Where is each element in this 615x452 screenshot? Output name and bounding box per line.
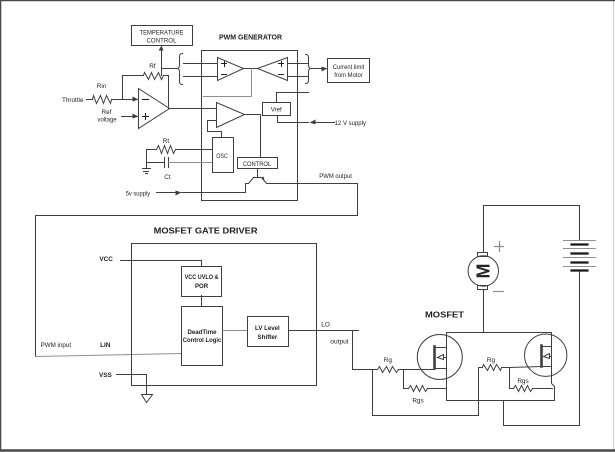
svg-text:Rgs: Rgs xyxy=(412,397,423,404)
wire left drain up xyxy=(446,333,448,348)
svg-text:LO: LO xyxy=(321,321,330,328)
wire right drain up xyxy=(551,333,553,347)
current limit from motor box xyxy=(328,59,370,83)
DeadTime Control Logic box xyxy=(182,307,223,366)
comparator A (left triangle) xyxy=(218,58,244,81)
resistor Rg right xyxy=(483,357,502,371)
svg-text:LIN: LIN xyxy=(100,342,111,349)
svg-text:12 V supply: 12 V supply xyxy=(335,120,367,127)
Ref voltage label xyxy=(98,109,117,124)
svg-text:VCC UVLO &: VCC UVLO & xyxy=(185,274,220,281)
wire gate run left xyxy=(353,369,378,371)
wire feedback left vertical xyxy=(123,76,144,100)
wire OSC to comparator C lower input xyxy=(208,121,222,138)
wire Vref bottom stub xyxy=(278,116,309,123)
svg-text:M: M xyxy=(473,264,493,279)
12 V supply arrow xyxy=(310,120,367,127)
motor M xyxy=(468,253,498,290)
svg-text:LV Level: LV Level xyxy=(255,325,280,332)
wire PWM output to gate driver input xyxy=(36,184,358,357)
wires brace to comparator A inputs xyxy=(184,64,218,77)
wire DeadTime to LV shifter xyxy=(223,330,248,332)
svg-text:5v supply: 5v supply xyxy=(126,191,151,198)
wire motor branch up xyxy=(483,290,485,333)
wire comparator C output to CONTROL xyxy=(245,115,261,158)
wire Rin to op-amp inverting input with arrow xyxy=(112,97,139,102)
brace left xyxy=(177,54,183,85)
svg-text:MOSFET GATE DRIVER: MOSFET GATE DRIVER xyxy=(154,225,258,235)
wire detour to right gate xyxy=(373,368,479,416)
wire between comparator apexes xyxy=(244,68,258,70)
svg-text:CONTROL: CONTROL xyxy=(243,161,272,168)
brace right xyxy=(306,55,312,84)
wire battery return xyxy=(504,272,580,426)
5v supply arrow xyxy=(126,191,246,198)
svg-text:Rg: Rg xyxy=(384,357,393,364)
svg-text:TEMPERATURE: TEMPERATURE xyxy=(140,30,184,37)
wire gate run right xyxy=(479,367,483,369)
svg-text:Throttle: Throttle xyxy=(62,97,84,104)
svg-text:Rf: Rf xyxy=(149,63,156,70)
wires comparator B to right brace xyxy=(288,64,308,77)
svg-text:Shifter: Shifter xyxy=(257,334,278,341)
wire left source down xyxy=(446,369,448,401)
wire op-amp output to comparator C xyxy=(170,108,217,110)
svg-text:Rgs: Rgs xyxy=(517,378,528,385)
wire brace to current limit with arrow xyxy=(312,67,328,72)
resistor Rg left xyxy=(378,357,399,373)
svg-text:POR: POR xyxy=(195,283,209,290)
svg-text:OSC: OSC xyxy=(216,153,228,160)
wire CONTROL to transistor base xyxy=(257,169,259,178)
wire Rg to right gate xyxy=(502,367,541,368)
svg-text:voltage: voltage xyxy=(98,117,117,124)
wire Vref top stub xyxy=(277,93,309,103)
gate driver box xyxy=(132,244,317,386)
wire right source down xyxy=(552,367,555,401)
svg-text:Ref: Ref xyxy=(102,109,112,116)
comparator C triangle xyxy=(217,103,245,128)
wire VSS to ground arrow xyxy=(117,375,147,395)
wire motor top xyxy=(483,206,485,253)
svg-text:Rg: Rg xyxy=(487,357,496,364)
PWM generator box xyxy=(202,51,298,201)
VCC UVLO and POR box xyxy=(182,267,222,297)
wire VCC to UVLO xyxy=(121,261,202,267)
svg-text:PWM output: PWM output xyxy=(319,173,352,180)
wire Rgs to right source xyxy=(533,388,553,390)
svg-text:DeadTime: DeadTime xyxy=(188,329,218,336)
op-amp U1 xyxy=(139,89,170,129)
wire Rg to gate xyxy=(399,369,434,371)
svg-text:Current limit: Current limit xyxy=(333,64,365,71)
svg-text:Rin: Rin xyxy=(97,83,107,90)
svg-text:MOSFET: MOSFET xyxy=(425,310,465,320)
capacitor Ct xyxy=(147,158,213,182)
resistor Rin xyxy=(87,83,112,104)
wire Rgs to source xyxy=(428,388,447,390)
resistor Rt xyxy=(147,138,213,154)
wire tap to Rgs left xyxy=(404,370,409,389)
svg-text:PWM input: PWM input xyxy=(41,342,72,349)
wire comparator midpoint down and left xyxy=(204,69,252,97)
svg-text:output: output xyxy=(330,338,349,345)
comparator B (right triangle) xyxy=(258,58,288,81)
svg-text:Rt: Rt xyxy=(163,138,170,145)
wire top bus to battery xyxy=(484,206,580,241)
wire Ref voltage to op-amp non-inverting input with arrow xyxy=(122,114,139,119)
wire source bus bottom xyxy=(447,400,555,402)
wire to temperature control with arrow xyxy=(159,46,164,76)
OSC box xyxy=(213,138,234,173)
wire PWM input sloped xyxy=(36,354,182,357)
svg-text:VCC: VCC xyxy=(99,256,113,263)
wire drain bus xyxy=(447,332,552,334)
svg-text:from Motor: from Motor xyxy=(334,72,363,79)
temperature control box xyxy=(132,26,193,46)
svg-text:CONTROL: CONTROL xyxy=(147,38,177,45)
MOSFET Q3 (right) xyxy=(525,334,567,376)
CONTROL box xyxy=(238,158,278,169)
wire tap to Rgs right xyxy=(510,368,514,389)
resistor Rgs right xyxy=(514,378,533,392)
LV Level Shifter box xyxy=(248,317,289,347)
plus terminal label xyxy=(495,242,504,252)
Vref box xyxy=(263,103,291,116)
battery B1 xyxy=(564,241,596,271)
svg-text:Vref: Vref xyxy=(271,106,282,113)
minus terminal label xyxy=(494,291,504,293)
ground arrow hollow xyxy=(142,395,153,403)
ground xyxy=(143,169,151,174)
transistor Q1 xyxy=(246,177,298,193)
wire feedback right vertical to op-amp output xyxy=(164,76,169,109)
border frame xyxy=(613,2,615,451)
svg-text:VSS: VSS xyxy=(99,372,113,379)
wire UVLO to DeadTime xyxy=(201,296,203,307)
resistor Rgs left xyxy=(409,386,428,405)
wire LO output xyxy=(289,331,359,370)
svg-text:Control Logic: Control Logic xyxy=(183,337,222,344)
wire Rt-Ct junction xyxy=(146,150,148,169)
svg-text:Ct: Ct xyxy=(164,174,171,181)
MOSFET Q2 (left) xyxy=(417,335,462,380)
resistor Rf xyxy=(144,63,164,79)
svg-text:PWM GENERATOR: PWM GENERATOR xyxy=(219,33,283,42)
wire error signal to left brace xyxy=(162,68,177,70)
